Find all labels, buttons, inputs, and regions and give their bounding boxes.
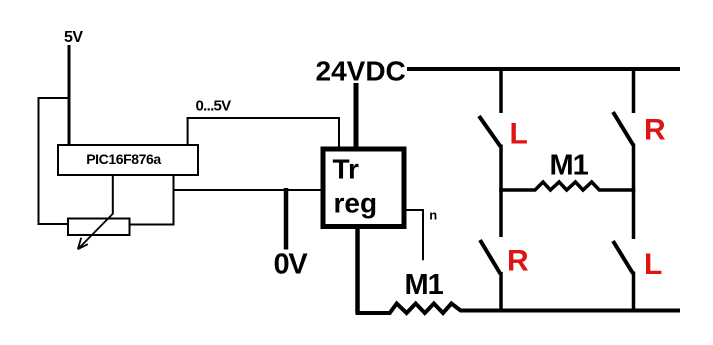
wire branch horizontal from 5V to left rail bbox=[38, 97, 71, 99]
inductor M1 bottom coil and bottom bus wire bbox=[356, 304, 681, 314]
svg-text:5V: 5V bbox=[64, 29, 83, 46]
switch blade bottom-right L bbox=[613, 241, 633, 274]
potentiometer R1 body bbox=[68, 219, 130, 236]
wire left leg bottom stub bbox=[499, 272, 503, 312]
svg-text:R: R bbox=[507, 244, 529, 277]
svg-text:0V: 0V bbox=[274, 248, 309, 280]
switch blade top-left L bbox=[479, 116, 501, 147]
wire PIC wiper vertical to potentiometer arrow bbox=[112, 175, 114, 214]
wire middle rail with inductor M1 bbox=[500, 182, 635, 190]
wire left leg lower-middle stub bbox=[499, 188, 503, 237]
wire 0...5V horizontal bbox=[187, 117, 340, 119]
wire 24VDC top bus bbox=[407, 67, 680, 71]
svg-text:M1: M1 bbox=[550, 149, 589, 181]
svg-text:PIC16F876a: PIC16F876a bbox=[86, 151, 161, 167]
potentiometer arrowhead bbox=[78, 238, 88, 249]
svg-text:24VDC: 24VDC bbox=[316, 55, 406, 86]
wire left leg middle stub bbox=[499, 145, 503, 193]
svg-text:M1: M1 bbox=[405, 269, 444, 301]
wire 24VDC vertical into Tr reg top bbox=[354, 83, 359, 148]
wire left leg upper stub bbox=[499, 67, 503, 113]
wire Tr reg bottom thick vertical bbox=[355, 226, 360, 313]
svg-text:L: L bbox=[510, 117, 528, 150]
svg-text:L: L bbox=[644, 248, 662, 281]
wire 5V vertical into PIC top bbox=[68, 45, 71, 146]
wire right leg bottom stub bbox=[632, 272, 636, 313]
potentiometer wiper arrow diagonal bbox=[78, 213, 114, 249]
svg-text:R: R bbox=[644, 114, 666, 147]
wire 0V thick vertical bbox=[284, 188, 289, 250]
svg-text:Tr: Tr bbox=[333, 153, 360, 184]
svg-text:reg: reg bbox=[334, 187, 378, 218]
wire 0...5V vertical into Tr reg top bbox=[338, 117, 340, 147]
IC U1 PIC16F876a box bbox=[58, 145, 198, 175]
wire 0...5V vertical from PIC top bbox=[187, 117, 189, 145]
switch blade bottom-left R bbox=[480, 240, 501, 274]
wire left rail vertical down to potentiometer bbox=[38, 97, 40, 225]
wire potentiometer right terminal horizontal bbox=[130, 224, 175, 226]
regulator U2 Tr reg box bbox=[323, 149, 404, 227]
svg-text:0...5V: 0...5V bbox=[196, 97, 232, 114]
wire horizontal into potentiometer left terminal bbox=[38, 223, 69, 225]
wire right leg middle stub bbox=[632, 144, 636, 193]
wire right leg upper stub bbox=[632, 67, 636, 113]
wire vertical from PIC bottom right to pot rail bbox=[173, 175, 175, 226]
wire n output from Tr reg right side bbox=[404, 210, 423, 260]
switch blade top-right R bbox=[613, 112, 634, 146]
wire right leg lower-middle stub bbox=[632, 188, 636, 239]
wire 0V horizontal thin to Tr reg bbox=[174, 189, 323, 191]
svg-text:n: n bbox=[429, 208, 437, 223]
